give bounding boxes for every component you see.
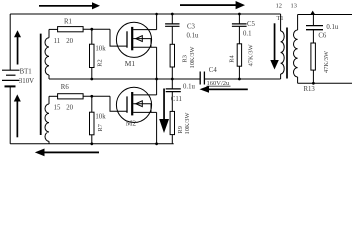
- wire mid rail (left of C4): [49, 78, 200, 80]
- arrow current down (T1 primary): [270, 23, 279, 69]
- node top rail C5: [238, 13, 241, 16]
- transformer T1 secondary winding: [297, 15, 299, 31]
- arrow current up (top): [14, 30, 21, 64]
- wire M2 source drop: [156, 112, 158, 143]
- transformer T1 core: [286, 28, 288, 79]
- capacitor C6: [312, 15, 314, 26]
- svg-text:R3: R3: [182, 55, 189, 62]
- svg-text:13: 13: [291, 3, 297, 10]
- node mid rail R4: [238, 78, 241, 81]
- svg-text:C4: C4: [209, 67, 218, 74]
- svg-text:C5: C5: [247, 21, 256, 28]
- svg-text:T1: T1: [277, 15, 284, 22]
- wire gate2: [110, 96, 127, 111]
- arrow current right (top-mid): [180, 1, 245, 9]
- svg-text:20: 20: [66, 38, 73, 45]
- node mid rail C11: [171, 78, 174, 81]
- svg-text:310V: 310V: [19, 78, 34, 85]
- svg-text:15: 15: [54, 105, 61, 112]
- wire bottom rail: [10, 143, 174, 145]
- arrow current down (beside M2): [159, 89, 169, 134]
- resistor R1: [49, 28, 58, 30]
- node bottom rail riser: [155, 142, 158, 145]
- transistor M1: [116, 22, 156, 57]
- wire top rail: [10, 13, 280, 15]
- svg-text:10k: 10k: [95, 114, 106, 121]
- winding L2 (pins 15-20): [48, 96, 50, 104]
- arrow current up (bottom): [14, 94, 21, 137]
- svg-text:C3: C3: [187, 24, 196, 31]
- wire gate1: [110, 29, 127, 46]
- transformer T1 core (feedback windings, left): [40, 34, 42, 135]
- svg-text:R2: R2: [97, 59, 104, 66]
- svg-text:0.1u: 0.1u: [183, 83, 195, 90]
- arrow current left (bottom-left): [35, 149, 99, 157]
- resistor R4: [237, 44, 241, 66]
- resistor R7 10k: [91, 96, 93, 112]
- node bottom rail R7: [90, 142, 93, 145]
- wire left border bottom: [9, 87, 11, 144]
- transistor M2: [116, 87, 156, 122]
- arrow up (output node): [310, 11, 315, 15]
- wire M2 drain riser: [156, 79, 158, 95]
- node mid rail riser: [155, 78, 158, 81]
- svg-text:R1: R1: [64, 18, 72, 25]
- svg-text:C11: C11: [171, 96, 182, 103]
- svg-text:10k: 10k: [95, 46, 106, 53]
- capacitor C3: [171, 14, 173, 24]
- capacitor C5: [238, 14, 240, 24]
- svg-text:12: 12: [276, 3, 282, 10]
- node mid rail R2: [90, 78, 93, 81]
- resistor R13: [311, 43, 316, 70]
- battery BT1: [2, 70, 20, 86]
- svg-text:R4: R4: [228, 54, 235, 62]
- node gate1 junction: [90, 28, 93, 31]
- svg-text:BT1: BT1: [20, 68, 32, 75]
- node top rail C3: [171, 13, 174, 16]
- wire left border top (battery branch): [9, 14, 11, 70]
- wire mid rail (right of C4): [204, 78, 280, 80]
- capacitor C4: [200, 72, 204, 85]
- arrow current left (mid): [200, 86, 248, 93]
- svg-text:C6: C6: [318, 33, 327, 40]
- svg-text:0.1u: 0.1u: [187, 33, 199, 40]
- resistor R9: [170, 111, 174, 134]
- svg-text:47K/3W: 47K/3W: [323, 50, 330, 73]
- wire M1 drain riser: [156, 14, 158, 30]
- svg-text:M1: M1: [125, 59, 136, 68]
- svg-text:0.1: 0.1: [243, 31, 252, 38]
- svg-text:0.1u: 0.1u: [326, 24, 338, 31]
- svg-text:R7: R7: [97, 123, 104, 131]
- winding L1 (pins 11-20): [48, 29, 50, 37]
- svg-text:M2: M2: [126, 118, 137, 127]
- svg-text:20: 20: [66, 105, 73, 112]
- svg-text:10K/3W: 10K/3W: [184, 112, 191, 135]
- wire secondary bottom: [298, 82, 352, 84]
- transformer T1 primary winding: [280, 14, 282, 31]
- svg-text:11: 11: [54, 38, 61, 45]
- wire M1 source drop: [156, 47, 158, 79]
- resistor R2 10k: [91, 29, 93, 44]
- capacitor C11: [171, 79, 173, 89]
- arrow current right (top-left): [39, 2, 100, 9]
- resistor R6: [49, 95, 58, 97]
- wire secondary top: [298, 14, 352, 16]
- svg-text:47K/3W: 47K/3W: [247, 43, 254, 66]
- resistor R3: [170, 44, 174, 67]
- svg-text:R6: R6: [61, 84, 70, 91]
- svg-text:R13: R13: [304, 86, 316, 93]
- node secondary bottom junction: [312, 82, 315, 85]
- node rail-drain junction: [155, 13, 158, 16]
- svg-text:10K/3W: 10K/3W: [189, 46, 196, 69]
- svg-text:R9: R9: [177, 126, 184, 133]
- node gate2 junction: [90, 95, 93, 98]
